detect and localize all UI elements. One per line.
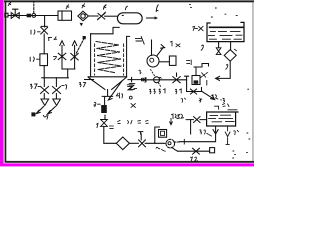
valve V12	[191, 89, 197, 94]
wire drop A	[43, 78, 45, 87]
tank T2 liquid dashes	[209, 110, 237, 122]
diag arrow	[202, 92, 215, 100]
node T junction	[44, 16, 46, 28]
apostrophe tick	[55, 37, 56, 40]
tank T1 walls	[207, 22, 244, 41]
tank T1 liquid dashes	[208, 31, 242, 39]
left wall flange tick	[85, 79, 94, 81]
label 16	[116, 93, 122, 98]
wire below box	[43, 66, 45, 78]
funnel A	[41, 94, 49, 106]
arrowhead left	[216, 76, 220, 80]
drain pipe neck	[102, 90, 112, 106]
label 33 pointer	[200, 130, 212, 136]
valve V11	[173, 73, 180, 83]
label 5b	[226, 65, 228, 70]
valve V8	[193, 148, 200, 154]
right edge specks	[247, 133, 250, 139]
label 9	[62, 85, 67, 89]
small tick near cup	[206, 81, 208, 86]
drain valve filled	[101, 105, 107, 113]
top specks	[85, 5, 238, 17]
circle valve CV	[154, 77, 160, 83]
flowmeter FM1 diamond	[78, 11, 89, 21]
wire dashed riser to top	[33, 2, 35, 14]
wire to valve V2	[88, 15, 98, 17]
hourglass valve V10	[216, 48, 221, 55]
tank T2 top tick	[215, 106, 219, 109]
label 7b flag	[135, 37, 144, 44]
label 22	[150, 89, 156, 94]
frame bottom border	[5, 161, 254, 163]
label 9b	[234, 130, 239, 134]
dash marks right	[109, 126, 113, 129]
funnel B	[53, 94, 61, 106]
tank2 drain arrowhead	[213, 130, 218, 134]
vent valve 1	[58, 53, 66, 59]
outlet arrow right	[128, 77, 141, 81]
middle pipe	[145, 78, 186, 83]
label 12	[221, 98, 225, 102]
stirrer diagonal	[108, 81, 121, 100]
bottom line 1 tank2 drain	[179, 126, 215, 142]
tank T1 liquid level	[210, 26, 244, 28]
line1 tick	[183, 139, 185, 144]
node inlet port	[5, 13, 8, 17]
receiver tank T3 capsule	[117, 13, 142, 24]
label 20	[175, 89, 181, 94]
drain arrow A	[37, 107, 43, 113]
valve V1 hand valve	[11, 9, 19, 18]
vent riser 1	[61, 46, 63, 70]
label sigma	[176, 44, 180, 47]
label 14b	[171, 114, 177, 119]
frame right border	[252, 2, 253, 161]
pump P1 filled body	[27, 14, 31, 18]
squiggle label	[156, 147, 165, 151]
label 8	[139, 70, 141, 74]
tank T2 walls	[207, 112, 238, 126]
tank T2 outlet right	[225, 126, 230, 144]
cone right	[112, 78, 126, 90]
pump P2 circle	[166, 139, 175, 148]
label 3	[66, 5, 69, 9]
label 5	[201, 45, 203, 50]
evaporator E1 left wall	[90, 34, 92, 77]
label 17	[48, 37, 56, 40]
tank T2 inlet valve V9	[186, 117, 206, 123]
coil side dashes left	[94, 44, 96, 75]
fan tangent arrow	[157, 47, 163, 55]
pump discharge	[172, 147, 178, 151]
diamond D3	[224, 50, 236, 62]
label u	[43, 115, 48, 119]
vent riser 2	[74, 46, 76, 70]
coil zigzag	[96, 42, 122, 73]
actuator box	[169, 56, 176, 65]
label phi	[199, 98, 202, 102]
label 10	[170, 41, 172, 45]
pointer box 18	[83, 36, 86, 39]
drain box A	[31, 112, 35, 116]
wire drop B	[55, 78, 57, 87]
label 6	[125, 6, 127, 9]
wire to valve V7	[129, 142, 138, 144]
label 19	[94, 102, 100, 106]
fan outlet pipe	[159, 61, 169, 63]
label 18	[191, 157, 198, 161]
drain valve V6	[101, 120, 108, 127]
component B1 box	[40, 54, 48, 66]
speck triangle	[80, 23, 83, 26]
frame magenta bottom stripe	[0, 163, 254, 166]
label f	[156, 5, 158, 12]
label 4	[82, 4, 85, 8]
valve V2 control	[98, 12, 106, 20]
control dashes	[151, 70, 155, 77]
evaporator right wall	[127, 36, 130, 77]
vent manifold	[62, 68, 75, 70]
label 14	[31, 30, 40, 34]
mixer diamond D2	[116, 137, 129, 150]
frame left border	[5, 0, 7, 162]
label 32	[177, 114, 183, 118]
pointer arrow 24	[170, 119, 173, 125]
label zbar2	[127, 85, 136, 90]
trap component	[155, 127, 160, 143]
label 15	[30, 57, 39, 61]
drain downpipe	[104, 126, 117, 143]
coil side dashes right	[123, 44, 125, 75]
bottom line 2	[178, 150, 210, 152]
valve V4	[41, 87, 49, 94]
frame top border	[4, 0, 254, 2]
vent arrowhead 2	[72, 41, 76, 46]
cone left	[89, 78, 105, 90]
valve V3 gate on left riser	[41, 26, 48, 34]
dashed pointer 18	[76, 39, 84, 53]
evaporator bottom rim	[88, 76, 127, 78]
cup feed line	[194, 64, 209, 68]
label o	[129, 96, 132, 99]
label 11 marks	[187, 60, 192, 65]
label 2	[103, 5, 106, 9]
wire to capsule	[105, 15, 118, 17]
label z-bar	[129, 84, 135, 90]
wire manifold horizontal	[42, 77, 69, 79]
label 7	[193, 26, 195, 30]
drain arrow B	[47, 107, 55, 115]
frame magenta left stripe	[0, 0, 4, 166]
lower line	[187, 88, 202, 92]
bottom specks	[233, 89, 249, 158]
valve V5	[53, 87, 61, 94]
sensor circle	[32, 14, 36, 18]
arrow right of capsule	[147, 17, 155, 19]
label 37	[30, 84, 40, 89]
label 32b	[223, 104, 229, 107]
vent valve 2	[71, 53, 78, 60]
tank T1 inlet valve	[195, 26, 203, 30]
wire top main line	[8, 15, 58, 17]
tank T1 outlet stubs	[219, 42, 231, 50]
label x	[131, 104, 135, 108]
wire diamond down and left	[216, 61, 230, 78]
evaporator top pipe	[91, 27, 120, 33]
label 21	[159, 89, 165, 94]
fan F2 riser	[151, 40, 153, 55]
fan F2 circle	[147, 55, 159, 67]
label 25	[79, 83, 85, 87]
label 9c	[181, 98, 185, 102]
label 26	[96, 123, 98, 127]
label tick left	[54, 56, 57, 59]
capsule dot	[121, 14, 124, 16]
pump outlet dashes	[174, 141, 180, 143]
filter F1	[58, 11, 72, 20]
vent arrowhead 1	[60, 41, 64, 46]
x valve mark	[200, 73, 207, 78]
tick right of diamond	[235, 49, 237, 51]
wire riser to box	[43, 34, 45, 54]
labels row above bottom run	[118, 120, 149, 123]
wire to trap	[145, 142, 165, 144]
cup component	[192, 76, 200, 85]
riser down	[185, 76, 189, 91]
end box	[210, 148, 215, 153]
drain specks	[104, 115, 106, 118]
label 13	[212, 95, 218, 99]
label 1	[8, 2, 11, 5]
inlet feed riser	[190, 120, 192, 134]
valve V7	[138, 132, 145, 147]
